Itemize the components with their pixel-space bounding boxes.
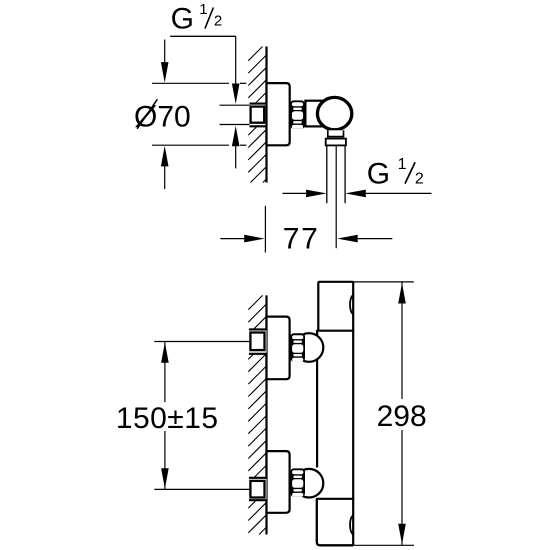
hex nut (top view) bbox=[290, 100, 305, 128]
150±15 text bbox=[114, 402, 220, 431]
Ø70 top arrow bbox=[164, 40, 166, 64]
dimension G1/2 (top) label line bbox=[170, 35, 236, 37]
elbow circle (top view) bbox=[317, 97, 351, 129]
150±15 upper extension line bbox=[154, 341, 249, 343]
wall hole (white) lower union bbox=[248, 479, 267, 499]
298 text bbox=[373, 399, 429, 430]
wall face extension line for 77 bbox=[264, 206, 266, 253]
svg-text:2: 2 bbox=[415, 171, 424, 188]
knob ellipse upper bbox=[350, 295, 357, 314]
wall hole edges lower bbox=[249, 477, 267, 479]
svg-text:2: 2 bbox=[214, 13, 222, 30]
svg-text:150±15: 150±15 bbox=[116, 402, 219, 435]
hose collar nut bbox=[326, 139, 346, 146]
wall hole edges (top view) bbox=[250, 103, 267, 105]
298 dimension line with arrows bbox=[401, 283, 403, 545]
G1/2 (hose) arrows bbox=[283, 192, 307, 194]
svg-text:1: 1 bbox=[398, 156, 407, 173]
square union in wall (top view) bbox=[251, 107, 265, 123]
body separator upper bbox=[316, 330, 353, 332]
wall hole edges upper bbox=[249, 328, 267, 330]
square union upper (in wall) bbox=[250, 333, 264, 351]
wall hatching (front/side view) bbox=[248, 295, 266, 534]
escutcheon upper (bottom view) bbox=[267, 317, 290, 380]
hose outlet tube bbox=[326, 146, 328, 204]
svg-text:1: 1 bbox=[199, 1, 207, 18]
escutcheon lower (bottom view) bbox=[267, 451, 290, 513]
150±15 lower extension line bbox=[154, 488, 249, 490]
body left edge bbox=[316, 331, 318, 468]
298 bottom extension line bbox=[353, 544, 414, 546]
Ø70 bottom arrow bbox=[161, 146, 169, 167]
hex nut upper (bottom view) bbox=[290, 333, 305, 361]
wall hole (white) upper union bbox=[248, 330, 267, 353]
valve body (top view) bbox=[305, 101, 334, 127]
wall hole (white) top view bbox=[248, 105, 267, 126]
knob ellipse lower bbox=[350, 516, 357, 535]
svg-text:G: G bbox=[171, 2, 194, 35]
body bottom cap bbox=[317, 499, 353, 546]
wall face line (top view) bbox=[265, 47, 267, 183]
150±15 dimension line with arrows bbox=[164, 342, 166, 490]
wall face line (bottom view) bbox=[265, 295, 267, 534]
thermostat body right edge bbox=[352, 282, 354, 546]
supply pipe lines in wall bbox=[220, 104, 250, 106]
svg-text:298: 298 bbox=[377, 400, 427, 433]
298 top extension line bbox=[353, 281, 414, 283]
wall hatching (top view) bbox=[248, 47, 266, 183]
dome of upper S-union bbox=[295, 333, 324, 362]
escutcheon (top view) bbox=[267, 83, 290, 145]
dome of lower S-union bbox=[295, 469, 324, 498]
svg-text:G: G bbox=[367, 157, 390, 190]
hose axis / extension line bbox=[335, 146, 337, 249]
Ø70 top extension line bbox=[152, 82, 229, 84]
body separator lower bbox=[316, 498, 353, 500]
Ø70 bottom extension line bbox=[152, 144, 229, 146]
G1/2 (top) right extension with arrows bbox=[235, 36, 237, 86]
square union lower (in wall) bbox=[250, 481, 264, 498]
hex nut lower (bottom view) bbox=[290, 468, 305, 496]
body top cap bbox=[318, 282, 353, 331]
svg-text:77: 77 bbox=[283, 222, 320, 255]
dimension 77 arrows bbox=[220, 238, 245, 240]
svg-text:Ø70: Ø70 bbox=[134, 100, 191, 133]
hose collar upper bbox=[328, 130, 344, 136]
